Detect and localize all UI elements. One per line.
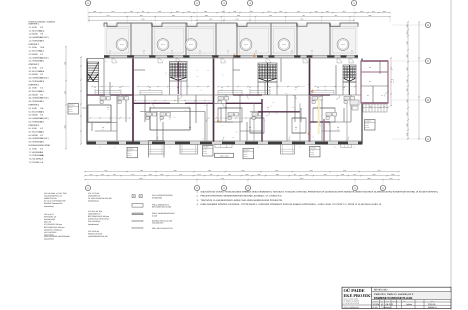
title block column dividers: [379, 300, 381, 309]
svg-text:5.4: 5.4: [337, 127, 339, 129]
svg-text:2600: 2600: [360, 11, 363, 12]
svg-text:2600: 2600: [392, 174, 395, 175]
svg-text:(sisestmine): (sisestmine): [44, 238, 54, 240]
svg-text:A-1: A-1: [334, 146, 336, 147]
korter table unit 6: [365, 120, 376, 131]
svg-text:9.6: 9.6: [107, 109, 109, 110]
svg-text:KORTER 3: KORTER 3: [29, 63, 40, 65]
grid bubble 5 bottom: [354, 181, 356, 186]
main block right exterior wall: [361, 103, 363, 144]
svg-text:3.3: 3.3: [29, 74, 32, 76]
svg-text:Mündi 7, Paide 72713: Mündi 7, Paide 72713: [344, 298, 359, 300]
annex bottom mini dim chain: [362, 107, 388, 109]
svg-text:6.1: 6.1: [249, 129, 251, 130]
svg-text:ÜKS SLIPPEKELEVÕISE: ÜKS SLIPPEKELEVÕISE: [152, 195, 173, 197]
svg-text:ESIK: ESIK: [32, 148, 37, 150]
svg-text:1.1: 1.1: [119, 87, 121, 89]
svg-text:4340: 4340: [406, 99, 407, 102]
svg-text:5.2: 5.2: [40, 53, 43, 55]
svg-text:1200: 1200: [406, 79, 407, 82]
svg-text:7.1: 7.1: [29, 148, 32, 150]
svg-text:KORTER 1: KORTER 1: [29, 23, 40, 25]
svg-text:1100: 1100: [372, 11, 375, 12]
svg-text:9.6: 9.6: [40, 33, 43, 35]
svg-text:2.: 2.: [197, 195, 199, 197]
kitchen counters: [95, 91, 121, 95]
svg-text:PROJEN TERSTAVAD SEINAKONSTRUK: PROJEN TERSTAVAD SEINAKONSTRUKTSIOONID J…: [201, 195, 283, 198]
svg-text:900: 900: [270, 106, 272, 107]
svg-text:KIVIKEENIK: KIVIKEENIK: [152, 197, 162, 199]
svg-text:KÖÖK: KÖÖK: [32, 94, 38, 96]
svg-text:29.4: 29.4: [40, 47, 44, 49]
svg-text:3030: 3030: [285, 93, 287, 94]
svg-text:3535: 3535: [221, 125, 223, 126]
svg-text:3560: 3560: [393, 81, 394, 83]
svg-text:4.: 4.: [197, 203, 199, 205]
svg-text:1280: 1280: [368, 15, 371, 16]
svg-text:4340: 4340: [64, 91, 65, 94]
load-bearing chunks y95: [87, 94, 105, 96]
svg-text:2400: 2400: [406, 24, 407, 27]
svg-text:1370: 1370: [111, 11, 114, 12]
left terrace edge jog: [87, 57, 104, 59]
svg-text:KUNA RUUMIDE KÕRGUS ON PISUAL,: KUNA RUUMIDE KÕRGUS ON PISUAL, TÕSTETAKS…: [201, 203, 382, 206]
svg-text:900: 900: [324, 89, 326, 90]
svg-text:1500: 1500: [275, 113, 277, 114]
svg-text:BETOONPLOKK 200 mm: BETOONPLOKK 200 mm: [44, 226, 65, 228]
svg-text:VSK JUNTOKS: VSK JUNTOKS: [88, 221, 101, 223]
svg-text:4.6: 4.6: [291, 50, 293, 52]
svg-text:VALAMISTUS: VALAMISTUS: [152, 222, 163, 224]
svg-text:VAHESEINTLE: VAHESEINTLE: [88, 195, 100, 197]
svg-text:14.2: 14.2: [295, 129, 297, 130]
svg-text:1510: 1510: [101, 174, 104, 175]
svg-text:3: 3: [223, 187, 225, 190]
stair core 4: [343, 65, 356, 82]
svg-text:6.5: 6.5: [29, 141, 32, 143]
svg-text:6.2 (51C): 6.2 (51C): [40, 36, 48, 38]
unit divider wall B: [213, 58, 215, 141]
svg-text:1: 1: [312, 88, 313, 89]
svg-text:KORTER 4: KORTER 4: [244, 150, 250, 151]
svg-text:BETOONPLOKID 190 mm: BETOONPLOKID 190 mm: [88, 216, 109, 218]
svg-text:6.4: 6.4: [381, 95, 383, 96]
svg-text:2.5: 2.5: [143, 50, 145, 52]
svg-text:3.5: 3.5: [199, 50, 201, 52]
svg-text:8950: 8950: [64, 125, 65, 128]
title block vertical divider: [371, 287, 373, 308]
svg-text:4340: 4340: [406, 67, 407, 70]
svg-text:KORTER 6: KORTER 6: [365, 121, 371, 122]
svg-text:2.3: 2.3: [29, 53, 32, 55]
svg-text:3: 3: [223, 2, 225, 5]
svg-text:3030: 3030: [235, 132, 237, 133]
svg-text:1280: 1280: [160, 174, 163, 175]
right dimension chain outer: [418, 22, 420, 139]
right dimension chain aux: [390, 58, 392, 106]
svg-text:3.6: 3.6: [40, 161, 43, 163]
svg-text:VAHESEINAPLOKK 100: VAHESEINAPLOKK 100: [88, 236, 108, 238]
svg-text:REHIELAMU: REHIELAMU: [374, 289, 387, 292]
svg-text:6.2: 6.2: [29, 131, 32, 133]
svg-text:9.2: 9.2: [40, 94, 43, 96]
svg-text:4.1: 4.1: [29, 87, 32, 89]
svg-text:PROJ. MINEDISTUS: PROJ. MINEDISTUS: [152, 204, 169, 206]
svg-text:ESIK: ESIK: [32, 26, 37, 28]
svg-text:2140: 2140: [187, 11, 190, 12]
internal dimension lines: [92, 86, 130, 88]
left inner dimension chain: [80, 57, 82, 144]
svg-text:Rel. Mai: Rel. Mai: [386, 301, 390, 302]
svg-text:S= 41.7: S= 41.7: [203, 149, 207, 150]
svg-text:KORTER 1: KORTER 1: [69, 105, 75, 106]
svg-text:1.2: 1.2: [94, 87, 96, 89]
korter table unit 1 (left outside): [68, 104, 79, 115]
grid bubble C right: [392, 60, 425, 62]
svg-text:2600: 2600: [196, 76, 198, 77]
svg-text:6.2: 6.2: [369, 67, 371, 69]
svg-text:ESIK: ESIK: [32, 107, 37, 109]
terrace railing lines: [104, 26, 131, 28]
svg-text:2140: 2140: [343, 170, 346, 171]
svg-text:1200: 1200: [104, 170, 107, 171]
svg-text:1200: 1200: [172, 15, 175, 16]
svg-text:1500: 1500: [204, 105, 206, 106]
svg-text:Sk 41.7: Sk 41.7: [365, 125, 369, 126]
svg-text:25.4: 25.4: [40, 30, 44, 32]
svg-text:VAHESEINTLE: VAHESEINTLE: [88, 213, 100, 215]
svg-text:3.8: 3.8: [40, 158, 43, 160]
svg-text:8.8 (51C): 8.8 (51C): [40, 97, 48, 99]
grid bubble 1 bottom: [87, 181, 89, 186]
svg-text:ESIK: ESIK: [32, 128, 37, 130]
svg-text:29.2: 29.2: [40, 60, 44, 62]
svg-text:1.3: 1.3: [29, 33, 32, 35]
svg-text:6.1: 6.1: [177, 89, 179, 90]
svg-text:Paide linn, Paide tn. Lasnide: Paide linn, Paide tn. Lasnide pst 2: [374, 293, 413, 296]
svg-text:3.4: 3.4: [221, 89, 223, 90]
svg-text:ATS 10.10000.KKC: ATS 10.10000.KKC: [344, 306, 360, 308]
svg-text:1.1: 1.1: [29, 26, 32, 28]
svg-text:5.1: 5.1: [29, 107, 32, 109]
svg-text:29.2: 29.2: [171, 53, 173, 54]
service shafts: [206, 103, 208, 140]
svg-text:3600: 3600: [222, 11, 225, 12]
svg-text:KORTER 2: KORTER 2: [29, 43, 40, 45]
svg-text:1120: 1120: [383, 106, 385, 107]
svg-text:S= 41.7: S= 41.7: [69, 107, 73, 108]
svg-text:ESIK: ESIK: [32, 87, 37, 89]
svg-text:4.4: 4.4: [295, 127, 297, 129]
svg-text:6.5: 6.5: [351, 50, 353, 52]
svg-text:KORTER 5: KORTER 5: [29, 104, 40, 106]
svg-text:3535: 3535: [131, 114, 133, 115]
svg-text:8.2: 8.2: [40, 148, 43, 150]
svg-text:VMS JUROORE KIAIVEIKSMAL: VMS JUROORE KIAIVEIKSMAL: [44, 236, 70, 238]
svg-text:8.2: 8.2: [40, 128, 43, 130]
svg-text:1370: 1370: [113, 174, 116, 175]
svg-text:S= 41.7: S= 41.7: [310, 150, 314, 151]
svg-text:3.4: 3.4: [94, 89, 96, 90]
svg-text:3600: 3600: [324, 174, 327, 175]
top dimension chain row 1: [89, 12, 390, 14]
title rows shading: [372, 292, 451, 300]
svg-text:1.2: 1.2: [29, 30, 32, 32]
svg-text:+0.00=+42.90: +0.00=+42.90: [220, 155, 229, 157]
grid bubble D right: [392, 24, 425, 26]
svg-text:660: 660: [294, 174, 296, 175]
svg-text:5.0: 5.0: [40, 114, 43, 116]
inner room boxes: [150, 108, 190, 130]
svg-text:4.1: 4.1: [295, 87, 297, 89]
svg-text:5.8: 5.8: [40, 151, 43, 153]
svg-text:TERRASS: TERRASS: [282, 44, 286, 45]
svg-text:5: 5: [354, 187, 356, 190]
svg-text:PEHKIURS CE: PEHKIURS CE: [44, 216, 56, 218]
load-bearing horizontal segments: [133, 102, 170, 104]
svg-text:4.5: 4.5: [255, 50, 257, 52]
svg-text:2140: 2140: [198, 174, 201, 175]
bottom dimension chain row 3: [85, 179, 399, 181]
svg-text:ESIMESE KORRUSE PLAAN: ESIMESE KORRUSE PLAAN: [374, 297, 412, 300]
svg-text:9.6: 9.6: [119, 89, 121, 90]
svg-text:5: 5: [353, 2, 355, 5]
svg-text:PINDISTUSTELE: PINDISTUSTELE: [88, 233, 102, 235]
svg-text:KIL OLJU 100*50/008 TMV: KIL OLJU 100*50/008 TMV: [44, 200, 66, 202]
svg-text:1510: 1510: [343, 11, 346, 12]
korter table unit 4: [243, 148, 254, 159]
korter table unit 2: [127, 147, 138, 158]
svg-text:6.1: 6.1: [369, 81, 371, 83]
annex entry steps below: [363, 104, 387, 112]
svg-text:5940: 5940: [300, 19, 303, 20]
stair core 2: [170, 62, 188, 82]
svg-text:6.3: 6.3: [29, 134, 32, 136]
svg-text:1200: 1200: [242, 170, 245, 171]
svg-text:VS3 16.00 d6: VS3 16.00 d6: [88, 231, 99, 233]
svg-text:1.: 1.: [197, 191, 199, 193]
svg-text:2600: 2600: [315, 11, 318, 12]
svg-text:3.4: 3.4: [225, 109, 227, 110]
svg-text:4.5: 4.5: [29, 101, 32, 103]
svg-text:Sk 41.7: Sk 41.7: [310, 152, 314, 153]
door swing arcs top wall: [112, 58, 117, 63]
bottom dimension chain row 1: [85, 171, 399, 173]
entry door arcs bottom: [153, 137, 158, 142]
svg-text:B: B: [427, 99, 429, 102]
unit divider wall A: [132, 58, 134, 141]
svg-text:900: 900: [307, 84, 309, 85]
svg-text:SUUSJÕÕGID VÕIVAD TEGELIKKUSES: SUUSJÕÕGID VÕIVAD TEGELIKKUSES ERINEDA V…: [201, 190, 439, 193]
svg-text:KORTER 6: KORTER 6: [29, 124, 40, 126]
svg-text:2400: 2400: [90, 174, 93, 175]
svg-text:1.5: 1.5: [29, 40, 32, 42]
svg-text:3.4: 3.4: [343, 89, 345, 90]
grid bubble 4 top: [249, 6, 251, 23]
svg-text:TENTIVATE JA LAIENDATAVATE AVA: TENTIVATE JA LAIENDATAVATE AVADE SULLUSE…: [201, 199, 283, 201]
terrace band fill: [104, 23, 358, 55]
svg-text:7.4: 7.4: [29, 158, 32, 160]
svg-text:5.2: 5.2: [29, 111, 32, 113]
svg-text:9.2: 9.2: [40, 74, 43, 76]
annex interior walls: [361, 71, 388, 73]
svg-text:TERRASS: TERRASS: [341, 44, 345, 45]
terrace dividers: [129, 24, 131, 56]
main block bottom exterior wall: [87, 142, 96, 145]
svg-text:VS2 9.16 d6. E16: VS2 9.16 d6. E16: [88, 211, 102, 213]
svg-text:7.3: 7.3: [29, 155, 32, 157]
svg-text:4.2: 4.2: [29, 90, 32, 92]
svg-text:ESIK: ESIK: [32, 47, 37, 49]
terrace circles (hot tubs): [116, 39, 128, 51]
svg-text:VKS u=0.22: VKS u=0.22: [44, 214, 54, 216]
svg-text:1280: 1280: [205, 15, 208, 16]
svg-text:3.2: 3.2: [29, 70, 32, 72]
svg-text:A: A: [427, 138, 429, 141]
svg-text:29.2: 29.2: [143, 53, 145, 54]
svg-text:TERRASS: TERRASS: [244, 44, 248, 45]
svg-text:3600: 3600: [406, 112, 407, 115]
svg-text:1100: 1100: [269, 15, 272, 16]
svg-text:900: 900: [185, 110, 187, 111]
interior partition walls: [103, 58, 105, 95]
svg-text:3.6: 3.6: [227, 50, 229, 52]
svg-text:4: 4: [249, 2, 251, 5]
svg-text:660: 660: [303, 15, 305, 16]
svg-text:2600: 2600: [341, 174, 344, 175]
grid bubble 5 top: [353, 6, 355, 23]
svg-text:El.4 m2: El.4 m2: [365, 127, 369, 128]
svg-text:KORTER 4: KORTER 4: [29, 84, 40, 86]
svg-text:25.4: 25.4: [149, 89, 151, 90]
svg-text:7.4 (51C): 7.4 (51C): [40, 138, 48, 140]
svg-text:Proovinud: Proovinud: [373, 301, 378, 302]
svg-text:3.2: 3.2: [221, 87, 223, 89]
svg-text:1510: 1510: [326, 11, 329, 12]
highlighted apartment annex outline: [361, 61, 388, 103]
svg-text:Sk 41.7: Sk 41.7: [69, 109, 73, 110]
svg-text:1100: 1100: [305, 174, 308, 175]
svg-text:900: 900: [222, 75, 224, 76]
svg-text:8.2: 8.2: [40, 67, 43, 69]
svg-text:(olevikivistus): (olevikivistus): [88, 200, 99, 202]
svg-text:3.4: 3.4: [29, 77, 32, 79]
svg-text:1: 1: [87, 2, 89, 5]
svg-text:El.4 m2: El.4 m2: [69, 111, 73, 112]
svg-text:TERRASS: TERRASS: [161, 44, 165, 45]
svg-text:2: 2: [196, 187, 198, 190]
svg-text:6.3: 6.3: [367, 95, 369, 97]
svg-text:e-mail [email protected]: e-mail [email protected]: [344, 302, 360, 304]
svg-text:1.4: 1.4: [102, 127, 104, 129]
grid bubble B right: [392, 99, 425, 101]
svg-text:900: 900: [200, 90, 202, 91]
svg-text:BAUROC Renova b=200: BAUROC Renova b=200: [152, 220, 172, 222]
grid bubble A right: [392, 138, 425, 140]
svg-text:2.4: 2.4: [169, 117, 171, 119]
svg-text:3050: 3050: [406, 54, 407, 57]
svg-text:2600: 2600: [149, 174, 152, 175]
svg-text:2.5: 2.5: [29, 60, 32, 62]
svg-text:TERRASS: TERRASS: [120, 44, 124, 45]
svg-text:(olevikivistus): (olevikivistus): [88, 223, 99, 225]
svg-text:8.2: 8.2: [40, 26, 43, 28]
svg-text:KÖÖK: KÖÖK: [32, 73, 38, 75]
entrance stoops: [215, 144, 232, 147]
svg-text:KORTER 2: KORTER 2: [128, 149, 134, 150]
svg-text:900: 900: [312, 137, 314, 138]
svg-text:6.4: 6.4: [40, 155, 43, 157]
svg-text:PROJ. VAHESEINAPLOKID: PROJ. VAHESEINAPLOKID: [152, 213, 175, 215]
svg-text:2280: 2280: [173, 117, 175, 118]
svg-text:A-1: A-1: [99, 146, 101, 147]
svg-text:9.4: 9.4: [40, 107, 43, 109]
bottom dimension chain row 2: [85, 175, 399, 177]
svg-text:KÖÖK: KÖÖK: [32, 134, 38, 136]
svg-text:C: C: [427, 60, 429, 63]
svg-text:PAB. JÄUL TASOVISTUS: PAB. JÄUL TASOVISTUS: [152, 227, 173, 229]
svg-text:(sisestmine): (sisestmine): [44, 205, 54, 207]
svg-text:b=100: b=100: [152, 215, 157, 217]
svg-text:S= 41.7: S= 41.7: [365, 123, 369, 124]
svg-text:2600: 2600: [176, 11, 179, 12]
svg-text:TERRASS: TERRASS: [189, 44, 193, 45]
korter table unit 3: [203, 146, 214, 157]
svg-text:2.2: 2.2: [149, 87, 151, 89]
korter table unit 5: [310, 146, 321, 157]
svg-text:1: 1: [234, 53, 235, 54]
svg-text:1100: 1100: [279, 11, 282, 12]
top dimension chain row 2: [89, 16, 390, 18]
grid bubble 6 bottom: [382, 181, 384, 186]
witness lines from chain to building: [88, 17, 90, 22]
purple wall segment lower right: [323, 119, 325, 142]
svg-text:Sk 41.7: Sk 41.7: [128, 153, 132, 154]
svg-text:3.1: 3.1: [249, 87, 251, 89]
svg-text:8.2: 8.2: [40, 134, 43, 136]
svg-text:5670: 5670: [406, 31, 407, 34]
svg-text:3.4: 3.4: [149, 109, 151, 110]
svg-text:29.2: 29.2: [311, 53, 313, 54]
svg-text:3.1: 3.1: [29, 67, 32, 69]
svg-text:14.2: 14.2: [249, 89, 251, 90]
grid bubble 2 bottom: [196, 181, 198, 186]
svg-text:29.4: 29.4: [40, 70, 44, 72]
top dimension chain row 3 (spans): [89, 19, 354, 21]
svg-text:25.4: 25.4: [269, 89, 271, 90]
svg-text:2600: 2600: [237, 15, 240, 16]
svg-text:7630: 7630: [209, 19, 212, 20]
svg-text:O. sd.: O. sd.: [373, 307, 378, 309]
svg-text:1510: 1510: [140, 15, 143, 16]
svg-text:24.2: 24.2: [40, 131, 44, 133]
stair core 1 (side flight): [88, 62, 99, 82]
bathroom fixtures: [100, 97, 106, 101]
svg-text:2600: 2600: [106, 123, 108, 124]
svg-text:4: 4: [247, 187, 249, 190]
svg-text:660: 660: [210, 174, 212, 175]
svg-text:2600: 2600: [383, 11, 386, 12]
svg-text:1.3: 1.3: [107, 107, 109, 109]
grid bubble 2 top: [196, 6, 198, 23]
svg-text:660: 660: [142, 11, 144, 12]
svg-text:TEHNIK: TEHNIK: [32, 161, 39, 163]
svg-text:14.2: 14.2: [189, 129, 191, 130]
svg-text:1280: 1280: [174, 170, 177, 171]
svg-text:2280: 2280: [165, 73, 167, 74]
terrace deck inner outlines: [106, 29, 129, 54]
svg-text:8.2: 8.2: [40, 87, 43, 89]
